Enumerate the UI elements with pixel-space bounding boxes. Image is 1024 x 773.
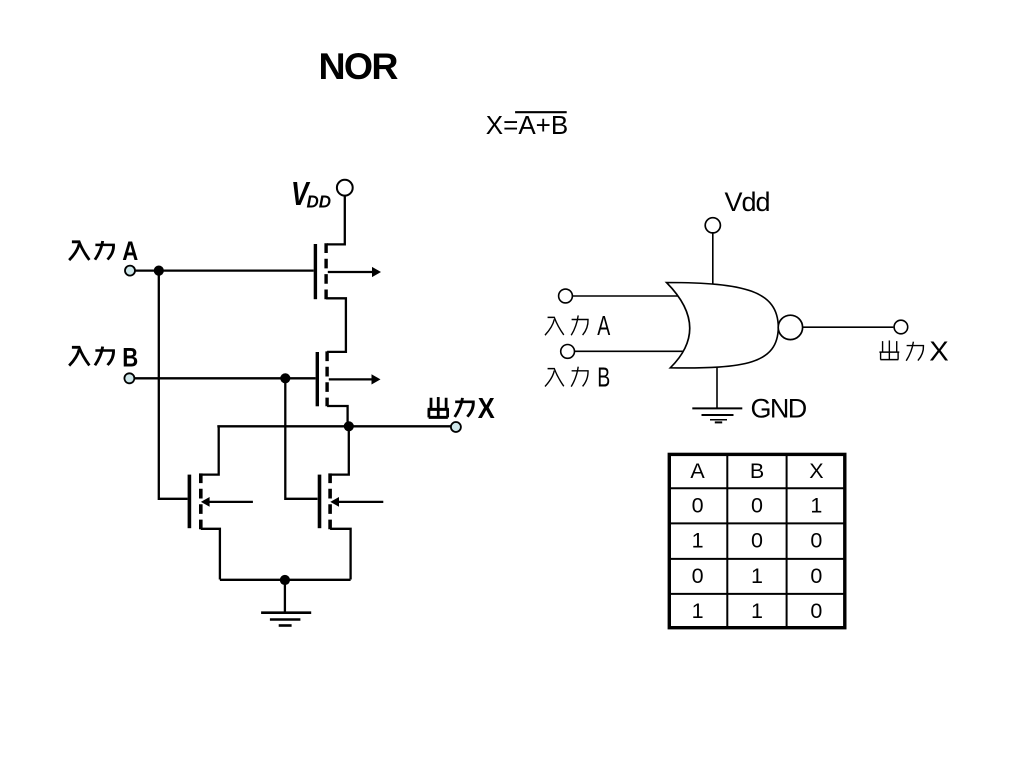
svg-text:A: A bbox=[690, 459, 705, 483]
svg-text:NOR: NOR bbox=[319, 45, 399, 87]
svg-text:0: 0 bbox=[810, 599, 822, 623]
svg-text:A: A bbox=[122, 236, 138, 266]
svg-text:0: 0 bbox=[810, 529, 822, 553]
svg-text:B: B bbox=[122, 343, 138, 373]
svg-text:0: 0 bbox=[751, 493, 763, 517]
svg-text:GND: GND bbox=[751, 393, 807, 423]
svg-text:DD: DD bbox=[307, 192, 332, 212]
svg-text:X: X bbox=[478, 393, 495, 425]
svg-text:Vdd: Vdd bbox=[725, 187, 770, 217]
svg-text:0: 0 bbox=[692, 493, 704, 517]
svg-text:1: 1 bbox=[692, 599, 704, 623]
svg-text:B: B bbox=[750, 459, 764, 483]
svg-text:B: B bbox=[597, 362, 610, 393]
svg-text:0: 0 bbox=[751, 529, 763, 553]
svg-text:X: X bbox=[809, 459, 823, 483]
svg-text:A: A bbox=[597, 310, 610, 341]
svg-text:1: 1 bbox=[751, 564, 763, 588]
svg-text:1: 1 bbox=[810, 493, 822, 517]
svg-text:X: X bbox=[929, 335, 949, 366]
svg-text:0: 0 bbox=[692, 564, 704, 588]
svg-text:1: 1 bbox=[692, 529, 704, 553]
svg-text:X=A+B: X=A+B bbox=[486, 110, 568, 140]
svg-text:0: 0 bbox=[810, 564, 822, 588]
svg-text:1: 1 bbox=[751, 599, 763, 623]
